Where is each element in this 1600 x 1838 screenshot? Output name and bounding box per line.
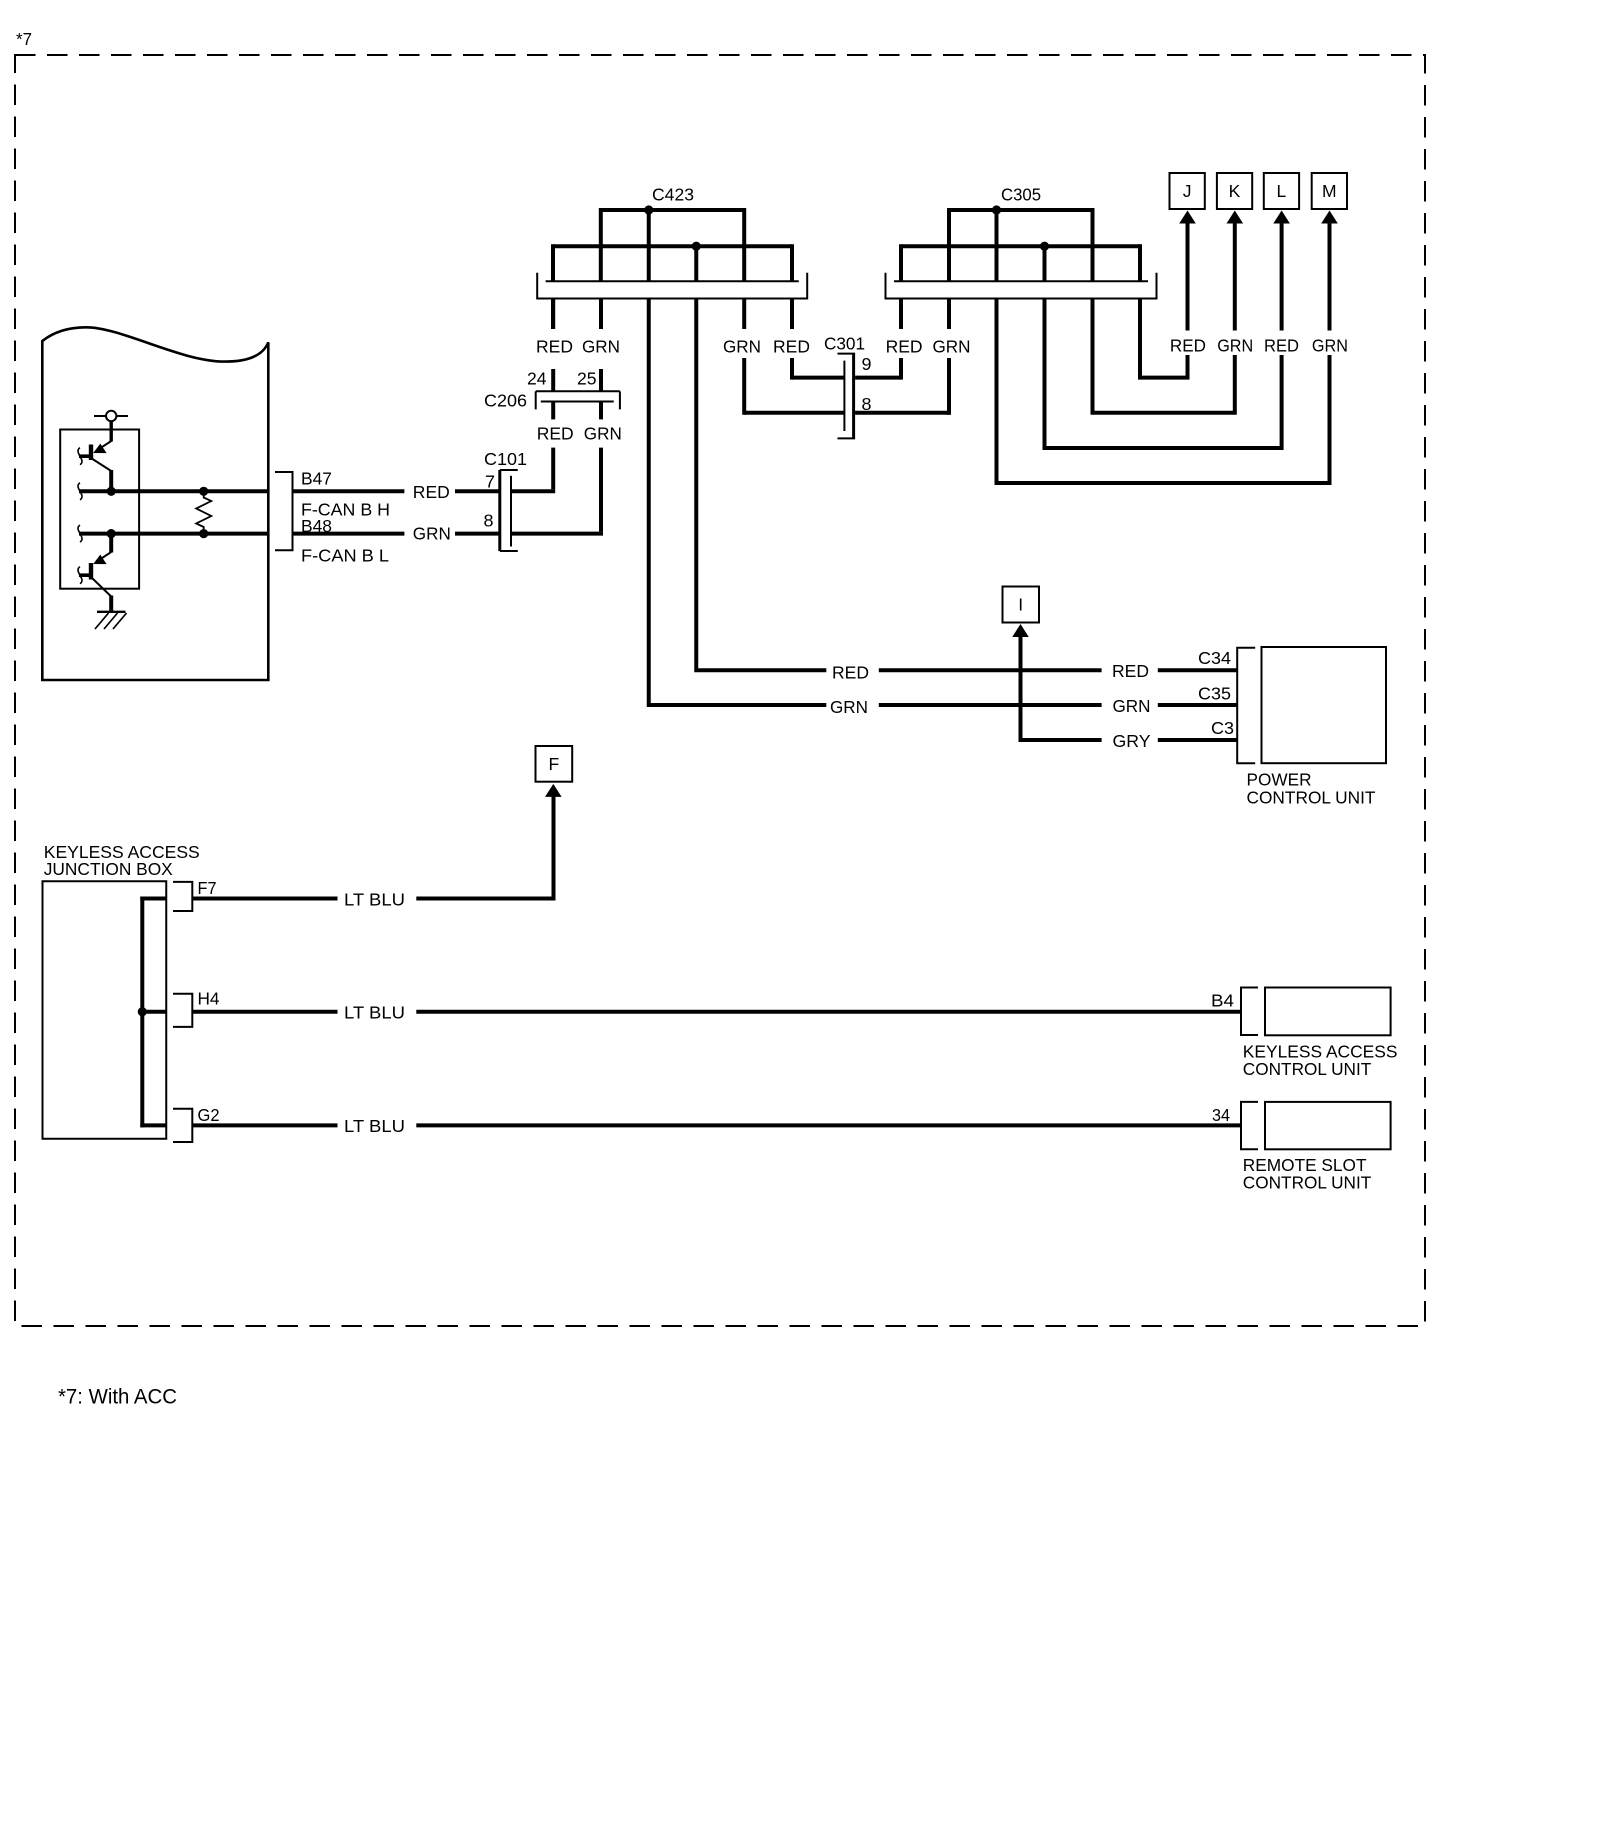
svg-text:8: 8: [484, 511, 494, 531]
transistor Q2 base bar: [89, 563, 93, 580]
keyless access control unit box: [1265, 988, 1391, 1036]
wire C305 pin3 long GRN to M: [997, 299, 1330, 484]
internal bus wire in junction box: [140, 897, 144, 1128]
remote slot control unit box: [1265, 1102, 1391, 1149]
wire supply to Q1 emitter: [109, 421, 112, 441]
svg-text:K: K: [1229, 181, 1241, 201]
transistor Q2 collector: [93, 579, 112, 597]
junction dot Q2 to L line: [107, 529, 116, 538]
svg-text:GRN: GRN: [1217, 336, 1253, 356]
junction dot H4 tap: [138, 1007, 147, 1016]
destination box J: [1170, 173, 1205, 209]
svg-text:JUNCTION BOX: JUNCTION BOX: [44, 859, 173, 879]
svg-text:34: 34: [1212, 1105, 1230, 1125]
wire C101 pin8 to GRN riser: [511, 532, 603, 536]
bridge wire RED at C423: [553, 244, 792, 248]
C423 pin stubs above bus: [599, 208, 603, 281]
svg-text:LT BLU: LT BLU: [344, 1003, 405, 1023]
junction dot RED bridge C423: [692, 242, 701, 251]
wire up to L: [1280, 222, 1284, 331]
svg-text:GRY: GRY: [1113, 731, 1151, 751]
arrow into F: [545, 784, 562, 797]
connector bracket G2: [173, 1109, 192, 1142]
wire LT BLU to pin 34: [416, 1123, 1241, 1127]
junction dot GRN bridge C423: [644, 205, 653, 214]
wire up to M: [1328, 222, 1332, 331]
svg-text:C305: C305: [1001, 185, 1041, 205]
break mark Q1 base: [78, 448, 82, 465]
arrow into J: [1179, 211, 1196, 224]
connector bracket B4: [1241, 988, 1258, 1036]
svg-text:CONTROL UNIT: CONTROL UNIT: [1243, 1173, 1372, 1193]
svg-text:GRN: GRN: [413, 523, 451, 543]
destination box L: [1264, 173, 1299, 209]
svg-text:C35: C35: [1198, 684, 1231, 704]
wire G2 from internal bus: [140, 1123, 166, 1127]
connector bracket at power control unit: [1237, 648, 1255, 764]
connector C206 symbol: [536, 390, 620, 392]
wire GRN to C35: [1158, 703, 1237, 707]
dashed border of *7 (With ACC) option region: [15, 55, 1425, 1326]
wire C101 pin7 to RED riser: [511, 489, 555, 493]
svg-text:RED: RED: [886, 337, 923, 357]
svg-text:24: 24: [527, 369, 547, 389]
power control unit box: [1262, 647, 1387, 763]
wire C423 pin6 RED down: [790, 299, 794, 330]
svg-text:RED: RED: [773, 337, 810, 357]
keyless access junction box outline: [43, 881, 167, 1139]
wire C423 pin6 to C301 pin9: [792, 376, 844, 380]
destination box I: [1003, 587, 1040, 623]
transistor Q1 emitter arrow (PNP): [99, 441, 111, 449]
C423 pin1 stub below bus (RED): [551, 299, 555, 330]
junction dot RED bridge C305: [1040, 242, 1049, 251]
svg-text:C34: C34: [1198, 648, 1231, 668]
svg-text:*7: With ACC: *7: With ACC: [58, 1386, 177, 1409]
wire L line to Q2: [109, 534, 113, 553]
wire GRN riser above C206: [599, 369, 603, 391]
wire RED riser above C206: [551, 369, 555, 391]
svg-text:25: 25: [577, 369, 597, 389]
wire C423 pin5 GRN down: [742, 299, 746, 330]
connector C101 symbol: [498, 470, 501, 551]
wire RED to C34: [1158, 668, 1237, 672]
arrow into L: [1273, 211, 1290, 224]
wire C301 pin8 to C305 pin2: [855, 411, 949, 415]
transistor Q1 base bar: [89, 445, 93, 461]
transistor Q1 base lead: [79, 454, 91, 458]
wire B48 to GRN label: [293, 532, 405, 536]
svg-text:C101: C101: [484, 449, 527, 469]
arrow into K: [1227, 211, 1244, 224]
wire G2 to LT BLU label: [192, 1123, 337, 1127]
wire F7 from internal bus: [140, 897, 166, 901]
connector bracket 34: [1241, 1102, 1258, 1149]
bridge wire GRN at C423 top: [601, 208, 744, 212]
wire C301 pin9 to C305 pin1: [855, 376, 901, 380]
svg-text:GRN: GRN: [933, 337, 971, 357]
svg-text:RED: RED: [1264, 336, 1299, 356]
C305 pin stubs above bus: [947, 208, 951, 281]
break mark Q2 base: [78, 567, 82, 584]
svg-text:RED: RED: [413, 482, 450, 502]
svg-text:C301: C301: [824, 334, 865, 354]
wire RED riser below C206: [551, 448, 555, 490]
wire RED row gap segment: [879, 668, 1102, 672]
wire H4 to LT BLU label: [192, 1010, 337, 1014]
wire C305 pin6 RED to J: [1140, 299, 1188, 378]
svg-text:RED: RED: [536, 337, 573, 357]
wire GRN riser below C206: [599, 448, 603, 532]
destination box F: [536, 746, 573, 782]
wire B47 to RED label: [293, 489, 405, 493]
wire LT BLU to F riser: [416, 795, 553, 899]
destination box K: [1217, 173, 1252, 209]
junction dot resistor top: [199, 487, 208, 496]
svg-text:F7: F7: [198, 878, 217, 898]
break mark L line left end: [78, 525, 82, 542]
wire GRY to C3: [1158, 738, 1237, 742]
ECU outline box with torn wavy top (left component): [42, 327, 268, 680]
svg-text:B4: B4: [1211, 991, 1234, 1011]
transistor Q2 base lead: [79, 573, 91, 577]
connector bracket H4: [173, 994, 192, 1027]
svg-text:GRN: GRN: [723, 337, 761, 357]
svg-text:F: F: [548, 754, 559, 774]
svg-text:RED: RED: [1170, 336, 1206, 356]
svg-text:7: 7: [485, 472, 495, 492]
wire C305 pin4 long RED to L: [1045, 299, 1282, 449]
svg-text:RED: RED: [537, 424, 574, 444]
svg-text:GRN: GRN: [584, 424, 622, 444]
wire H4 from internal bus: [142, 1010, 166, 1014]
svg-text:LT BLU: LT BLU: [344, 890, 405, 910]
C423 pin2 stub below bus (GRN): [599, 299, 603, 330]
wire C305 pin5 GRN to K: [1093, 299, 1235, 413]
svg-text:RED: RED: [832, 663, 869, 683]
destination box M: [1312, 173, 1347, 209]
svg-text:H4: H4: [198, 989, 220, 1009]
break mark H line left end: [78, 483, 82, 500]
svg-text:GRN: GRN: [1312, 336, 1348, 356]
svg-text:F-CAN B L: F-CAN B L: [301, 546, 389, 566]
svg-text:GRN: GRN: [830, 697, 868, 717]
arrow into I: [1012, 624, 1029, 637]
supply terminal circle: [94, 415, 128, 417]
wire C305 pin1 RED down to C301: [899, 299, 903, 330]
connector bracket F7: [173, 882, 192, 911]
svg-text:C206: C206: [484, 391, 527, 411]
svg-text:B47: B47: [301, 469, 332, 489]
bridge wire GRN at C305 top: [949, 208, 1093, 212]
svg-text:GRN: GRN: [1113, 696, 1151, 716]
transistor Q1 collector: [93, 459, 112, 471]
wire LT BLU to B4: [416, 1010, 1241, 1014]
wire C423 pin3 long GRN riser: [649, 299, 827, 706]
junction dot Q1 collector to H line: [107, 487, 116, 496]
svg-text:CONTROL UNIT: CONTROL UNIT: [1247, 788, 1376, 808]
wire GRN label to C101 pin8: [455, 532, 500, 536]
svg-text:LT BLU: LT BLU: [344, 1116, 405, 1136]
wire C305 pin2 GRN down to C301: [947, 299, 951, 330]
connector C423 bus symbol: [537, 273, 807, 299]
wire up to K: [1233, 222, 1237, 331]
svg-text:POWER: POWER: [1247, 770, 1312, 790]
junction dot GRN bridge C305: [992, 205, 1001, 214]
arrow into M: [1321, 211, 1338, 224]
svg-text:C3: C3: [1211, 718, 1234, 738]
wire F7 to LT BLU label: [192, 897, 337, 901]
wire GRY riser to I: [1021, 636, 1102, 741]
wire RED label to C101 pin7: [455, 489, 500, 493]
wire C423 pin5 to C301 pin8: [744, 411, 844, 415]
svg-text:J: J: [1183, 181, 1192, 201]
wire up to J: [1186, 222, 1190, 331]
svg-text:L: L: [1277, 181, 1287, 201]
connector C301 symbol: [843, 361, 845, 431]
svg-text:*7: *7: [16, 29, 32, 49]
inner dashed-function box around transistors: [60, 430, 139, 589]
svg-text:RED: RED: [1112, 661, 1149, 681]
svg-text:CONTROL UNIT: CONTROL UNIT: [1243, 1059, 1372, 1079]
terminating resistor between CAN lines: [196, 491, 211, 533]
ground symbol: [97, 611, 126, 613]
wire F-CAN B H inside ECU: [79, 489, 268, 493]
wire F-CAN B L inside ECU: [79, 532, 268, 536]
wire GRN row gap segment: [879, 703, 1102, 707]
junction dot resistor bottom: [199, 529, 208, 538]
transistor Q2 emitter arrow (PNP): [99, 552, 111, 560]
connector C305 bus symbol: [886, 273, 1157, 299]
svg-text:GRN: GRN: [582, 337, 620, 357]
svg-text:M: M: [1322, 181, 1337, 201]
svg-text:I: I: [1018, 595, 1023, 615]
svg-text:C423: C423: [652, 185, 694, 205]
svg-text:9: 9: [862, 354, 872, 374]
wire C423 pin4 long RED riser: [696, 299, 826, 671]
connector bracket B47/B48 at ECU: [275, 472, 293, 550]
svg-text:G2: G2: [198, 1105, 220, 1125]
bridge wire RED at C305: [901, 244, 1140, 248]
